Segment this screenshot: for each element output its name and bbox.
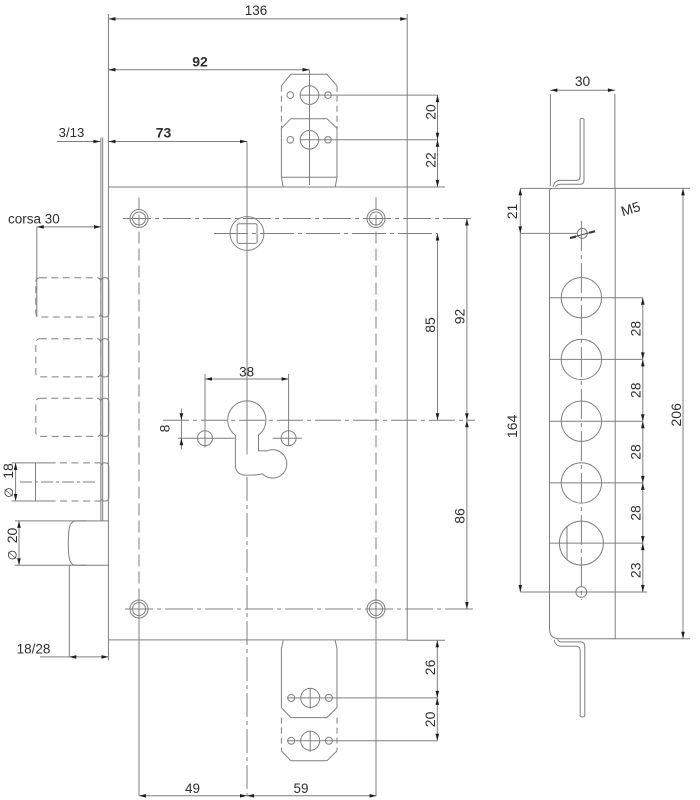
dimension 30 side width — [550, 89, 615, 91]
top bracket small hole 2L — [287, 137, 294, 144]
bolt opening in faceplate row 3 — [101, 398, 109, 436]
extension line left hole to 49 dim — [138, 595, 140, 796]
leader through side hole at y=421.2 — [550, 420, 643, 422]
faceplate front edge line — [100, 138, 102, 521]
bottom bracket small hole 1L — [288, 694, 295, 701]
svg-text:85: 85 — [422, 317, 438, 333]
svg-text:30: 30 — [575, 74, 591, 89]
svg-text:92: 92 — [452, 309, 468, 325]
leader through side hole at y=297.7 — [550, 297, 643, 299]
chord in hole 5 — [566, 527, 568, 560]
centerline through keyhole — [163, 419, 475, 421]
bottom bracket small hole 1R — [325, 694, 332, 701]
svg-text:164: 164 — [504, 415, 520, 439]
screw hole right of keyhole — [281, 431, 296, 446]
top bracket bottom edge — [281, 176, 337, 178]
top bracket left edge solid — [280, 128, 282, 177]
cylinder hole 1 side view — [561, 278, 601, 318]
bolt opening in faceplate row 4 — [101, 463, 109, 501]
dimension 49 bottom — [139, 795, 247, 797]
bolt 4 bottom edge solid part — [36, 500, 49, 502]
dimension 21 and 164 left chain — [519, 188, 521, 592]
vertical line through spindle and keyhole — [246, 142, 248, 455]
dimension 136 top — [109, 18, 408, 20]
bottom bracket left foot — [281, 640, 283, 649]
dimension chain 26 / 20 bottom bracket — [436, 640, 438, 741]
cylinder hole 2 side view — [561, 339, 601, 379]
M5 thread slash — [570, 231, 595, 238]
bolt 4 centerline — [20, 481, 96, 483]
bottom bracket hole1 centerline — [309, 688, 311, 709]
M5 threaded hole — [577, 228, 587, 238]
bottom bracket unit2 left edge dashed — [280, 718, 282, 751]
extension line right screw — [288, 374, 290, 446]
square spindle hole 8mm — [237, 224, 257, 244]
extension line side right edge — [614, 94, 616, 188]
leader bottom bracket hole 2 — [287, 740, 437, 742]
leader side top to 206 — [615, 187, 690, 189]
svg-text:20: 20 — [422, 711, 438, 727]
vertical centerline left holes — [138, 198, 140, 596]
bottom bracket right foot — [335, 640, 337, 649]
lock case body (front view) — [108, 187, 407, 640]
leader small bottom hole — [520, 591, 647, 593]
dimension chain 28 x4 and 23 right — [642, 298, 644, 592]
top bracket left foot — [281, 177, 283, 187]
top bracket small hole 1L — [287, 92, 294, 99]
vertical centerline below keyhole — [246, 477, 248, 796]
dimension 73 backset (bold) — [108, 141, 247, 143]
top bracket chamfered head — [281, 74, 337, 86]
bottom bracket left edge solid — [280, 649, 282, 708]
svg-text:21: 21 — [504, 204, 520, 220]
double-bit keyhole — [228, 401, 287, 478]
centerline keyhole screws left part — [178, 437, 235, 439]
svg-text:28: 28 — [628, 382, 644, 398]
bottom bracket unit2 right edge dashed — [336, 718, 338, 751]
dimension 18/28 bolt throw — [40, 656, 108, 658]
bolt 4 top edge solid part — [36, 462, 49, 464]
dimension 8 keyhole offset — [180, 409, 182, 450]
svg-text:8: 8 — [157, 424, 173, 432]
extension line body right edge up — [406, 14, 408, 187]
svg-text:38: 38 — [239, 365, 254, 380]
leader side bottom to 206 — [615, 638, 690, 640]
bolt opening in faceplate row 1 — [101, 278, 109, 317]
svg-text:28: 28 — [628, 505, 644, 521]
svg-text:22: 22 — [423, 152, 439, 168]
centerline through top fixing holes — [123, 218, 475, 220]
cylinder hole 5 side view — [559, 521, 603, 565]
dimension chain 20 / 22 top bracket — [437, 95, 439, 187]
fixing hole bottom-right inner — [370, 603, 383, 616]
top bracket right edge solid — [336, 128, 338, 177]
svg-text:49: 49 — [185, 781, 200, 796]
extension line body left edge down — [107, 640, 109, 661]
svg-text:26: 26 — [422, 659, 438, 675]
extension line body left edge up — [107, 14, 109, 187]
fixing hole top-right inner — [370, 212, 383, 225]
svg-text:86: 86 — [452, 508, 468, 524]
dimension 86 keyhole to bottom holes — [466, 420, 468, 609]
dimension 85 spindle to keyhole — [437, 234, 439, 421]
dimension 3/13 faceplate — [57, 141, 100, 143]
svg-text:92: 92 — [192, 54, 208, 70]
svg-text:136: 136 — [245, 3, 268, 18]
bottom bracket unit2 chamfered end — [281, 751, 337, 761]
centerline through spindle — [214, 233, 437, 235]
bolt 4 bottom edge dashed part — [49, 500, 101, 502]
leader side top edge — [520, 187, 551, 189]
cylinder hole 4 side view — [561, 463, 601, 503]
extension line left screw — [204, 374, 206, 448]
vertical centerline right holes — [375, 198, 377, 596]
svg-text:∅: ∅ — [2, 487, 16, 497]
svg-text:73: 73 — [156, 124, 172, 140]
extension line right hole to 59 dim — [375, 595, 377, 796]
bottom bracket small hole 2R — [325, 737, 332, 744]
faceplate inner edge line — [102, 138, 104, 521]
deadbolt 2 outline (dashed) — [36, 339, 101, 377]
body top edge extension right — [407, 186, 445, 188]
centerline through bottom fixing holes — [125, 608, 475, 610]
dimension 92 top holes to keyhole — [466, 219, 468, 421]
leader top bracket hole 2 — [300, 139, 438, 141]
leader M5 hole — [520, 232, 577, 234]
screw hole left of keyhole — [198, 431, 213, 446]
top bracket big hole 1 — [300, 86, 319, 105]
svg-text:18: 18 — [0, 463, 16, 479]
dimension diam 18 bolt — [15, 463, 17, 501]
svg-text:59: 59 — [293, 781, 308, 796]
extension line side left edge — [549, 94, 551, 186]
top bracket right edge dashed — [336, 86, 338, 129]
deadbolt 1 outline (dashed) — [36, 278, 101, 317]
extension line main bolt face — [68, 565, 70, 657]
fixing hole top-left outer — [130, 210, 148, 228]
bottom bent mounting tab — [554, 639, 585, 717]
small hole bottom side view — [576, 587, 587, 598]
leader through side hole at y=482.9 — [550, 482, 643, 484]
bottom bracket big hole 1 — [301, 688, 320, 707]
fixing hole top-left inner — [133, 212, 146, 225]
top bracket right foot — [335, 177, 337, 187]
bottom bracket right edge solid — [336, 649, 338, 708]
extension line bolt tip — [36, 227, 38, 317]
bolt 4 top edge dashed part — [49, 462, 101, 464]
leader top bracket hole 1 — [300, 94, 438, 96]
top bracket centerline — [309, 70, 311, 185]
fixing hole top-right outer — [367, 210, 385, 228]
dimension diam 20 main bolt — [18, 521, 20, 565]
svg-text:18/28: 18/28 — [17, 642, 51, 657]
svg-text:3/13: 3/13 — [59, 125, 85, 140]
svg-text:206: 206 — [668, 403, 684, 427]
bottom bracket unit1 chamfer — [281, 708, 337, 718]
bottom bracket small hole 2L — [288, 737, 295, 744]
main deadbolt diam 20 head — [68, 521, 108, 565]
dimension 92 top — [109, 69, 310, 71]
bolt 4 front face — [35, 463, 37, 501]
fixing hole bottom-left inner — [133, 603, 146, 616]
dimension 38 keyhole screws — [205, 378, 289, 380]
deadbolt 3 outline (dashed) — [36, 398, 101, 436]
top bracket small hole 1R — [325, 92, 332, 99]
svg-text:23: 23 — [628, 562, 644, 578]
dimension 59 bottom — [247, 795, 377, 797]
top bracket big hole 2 — [300, 131, 319, 150]
svg-text:corsa 30: corsa 30 — [8, 212, 60, 227]
dimension corsa 30 bolt throw — [37, 226, 101, 228]
bolt opening in faceplate row 2 — [101, 339, 109, 377]
fixing hole bottom-right outer — [367, 600, 385, 618]
svg-text:∅: ∅ — [5, 550, 19, 560]
side view vertical centerline — [580, 221, 582, 600]
svg-text:28: 28 — [628, 321, 644, 337]
svg-text:20: 20 — [4, 528, 20, 544]
bottom bracket big hole 2 — [301, 731, 320, 750]
top bracket unit2 chamfer — [281, 119, 337, 129]
svg-text:28: 28 — [628, 444, 644, 460]
fixing hole bottom-left outer — [130, 600, 148, 618]
bottom bracket hole2 centerline — [309, 731, 311, 752]
cylinder hole 3 side view — [561, 401, 601, 441]
body bottom edge extension right — [407, 639, 445, 641]
dimension 206 overall height — [682, 188, 684, 638]
top bent mounting tab — [553, 118, 584, 187]
svg-text:20: 20 — [423, 104, 439, 120]
side view faceplate outline — [550, 188, 616, 638]
top bracket small hole 2R — [325, 137, 332, 144]
leader through side hole at y=359.4 — [550, 358, 643, 360]
top bracket left edge dashed — [280, 86, 282, 129]
leader through side hole at y=543.1 — [550, 542, 643, 544]
leader bottom bracket hole 1 — [287, 697, 437, 699]
spindle boss circle — [230, 217, 264, 251]
centerline keyhole screws right part — [273, 437, 302, 439]
